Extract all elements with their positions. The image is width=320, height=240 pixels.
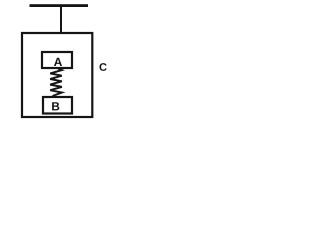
- spring: [50, 69, 62, 96]
- container box C: [22, 33, 92, 117]
- ceiling support bar: [30, 4, 89, 7]
- label A: [54, 58, 62, 66]
- hanger rod: [60, 7, 62, 33]
- label B: [52, 102, 59, 110]
- mass block A: [42, 52, 72, 68]
- label C: [99, 63, 106, 71]
- mass block B: [43, 97, 72, 114]
